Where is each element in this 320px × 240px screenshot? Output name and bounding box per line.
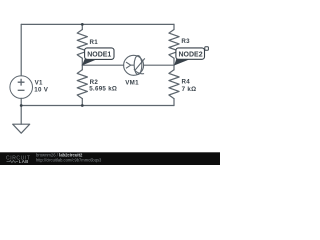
node NODE2 callout box (174, 47, 208, 66)
svg-text:R1: R1 (90, 39, 99, 46)
wire mid rail right (144, 64, 174, 66)
resistor R3 (169, 30, 179, 59)
voltmeter VM1 (124, 55, 145, 75)
voltage source V1 (10, 76, 33, 99)
ground (13, 124, 30, 133)
wire R2 bottom lead (81, 99, 83, 106)
wire bottom rail (21, 105, 174, 107)
wire right branch top lead (173, 24, 175, 29)
wire top rail (21, 23, 174, 25)
svg-text:VM1: VM1 (125, 80, 139, 87)
svg-text:5.695 kΩ: 5.695 kΩ (89, 86, 117, 93)
svg-text:7 kΩ: 7 kΩ (182, 86, 197, 93)
wire R1 bottom lead (81, 58, 83, 65)
resistor R1 (77, 30, 87, 59)
svg-text:10 V: 10 V (34, 86, 49, 93)
wire R4 bottom lead (173, 99, 175, 106)
wire R3 bottom lead (173, 58, 175, 65)
wire R2 top lead (81, 65, 83, 70)
resistor R2 (77, 70, 87, 99)
small omega marker (205, 47, 209, 50)
svg-text:LAB: LAB (19, 159, 29, 164)
svg-text:R4: R4 (182, 78, 191, 85)
watermark bar (0, 152, 220, 165)
junction dot top (81, 23, 84, 26)
junction dot bottom mid (81, 104, 84, 107)
wire mid rail left (82, 64, 123, 66)
canvas background (0, 0, 220, 165)
svg-text:NODE1: NODE1 (87, 51, 111, 58)
wire V1 bottom to bottom rail (20, 98, 22, 124)
svg-text:http://circuitlab.com/c9b7mmc6: http://circuitlab.com/c9b7mmc6bqs3 (36, 157, 102, 162)
junction dot bottom left (20, 104, 23, 107)
svg-text:R3: R3 (181, 38, 190, 45)
svg-text:V1: V1 (35, 79, 43, 86)
wire R1 branch top lead (81, 24, 83, 29)
resistor R4 (169, 70, 179, 99)
node NODE1 callout box (82, 48, 114, 66)
wire left rail to V1 (20, 24, 22, 75)
wire R4 top lead (173, 65, 175, 70)
svg-text:NODE2: NODE2 (179, 51, 203, 58)
